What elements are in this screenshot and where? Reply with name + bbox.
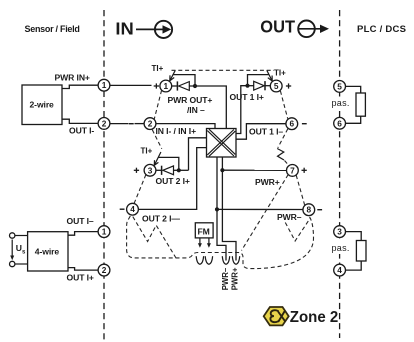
OUT arrow symbol (298, 21, 329, 38)
svg-text:6: 6 (289, 119, 294, 129)
dashed zigzag terminal4 to FM plug (133, 217, 176, 258)
dashed diag terminal5-terminal6 (280, 91, 287, 119)
svg-text:PWR IN+: PWR IN+ (55, 72, 90, 82)
junction node at 177.5,170.3 (177, 168, 181, 172)
dashed diag terminal3-terminal4 (134, 175, 146, 204)
FM box (195, 223, 213, 238)
svg-text:3: 3 (148, 165, 153, 175)
svg-text:8: 8 (306, 205, 311, 215)
plug fork FM right (205, 256, 212, 264)
supply terminal circles (10, 233, 15, 238)
wire terminal2 to device terminal 2 (110, 123, 129, 125)
TI+ dashed test line top (172, 69, 275, 71)
device terminal 6 (286, 118, 298, 130)
svg-text:OUT I+: OUT I+ (67, 273, 94, 283)
junction node PWR+ branch (220, 168, 224, 172)
minus sign at terminal 8 (317, 209, 322, 210)
2-wire sensor box (22, 85, 62, 125)
device terminal 3 (144, 164, 156, 176)
pas. label lower (331, 242, 350, 254)
svg-text:TI+: TI+ (152, 64, 164, 73)
dashed boundary around power section (127, 215, 314, 268)
junction node PWR- branch (215, 207, 219, 211)
svg-text:5: 5 (337, 81, 342, 91)
svg-text:FM: FM (198, 227, 210, 237)
wire diode to isolator top (PWR OUT+) (189, 86, 226, 129)
svg-text:7: 7 (290, 165, 295, 175)
solid tap from node to TI+ arrow left (174, 75, 196, 86)
device terminal 7 (287, 165, 299, 177)
Us supply arrow (10, 240, 26, 261)
device terminal 4 (127, 203, 139, 215)
svg-text:6: 6 (337, 118, 342, 128)
wire 4-wire to terminal 2 (68, 268, 98, 271)
Ex hexagon logo (264, 307, 289, 325)
plus sign at terminal 7 (302, 168, 307, 173)
plug fork PWR- (222, 256, 229, 264)
pas. label upper (331, 97, 350, 109)
svg-text:TI+: TI+ (274, 68, 286, 77)
svg-text:PWR+: PWR+ (255, 177, 280, 187)
PLC terminal 5 (334, 81, 346, 93)
svg-text:IN I- / IN I+: IN I- / IN I+ (156, 126, 197, 136)
isolator bottom wire PWR- (217, 157, 226, 261)
tap to TI+ arrow 3 (158, 157, 179, 170)
device terminal 1 (160, 80, 172, 92)
terminal 1 sensor side (98, 79, 110, 91)
wire diode3 to junction (174, 169, 189, 171)
TI+ arrow at terminal 1 (170, 70, 176, 81)
wire supply top (15, 235, 28, 237)
plug fork PWR+ (232, 256, 239, 264)
plus sign at device terminal 1 (154, 83, 159, 88)
wire 2-wire to terminal 2 (62, 119, 98, 123)
dashed check below terminal8 (285, 218, 310, 241)
svg-text:OUT 2 I—: OUT 2 I— (142, 214, 180, 224)
svg-text:5: 5 (274, 81, 279, 91)
svg-text:pas.: pas. (332, 98, 350, 108)
dashed diag terminal6-zigzag (278, 129, 288, 148)
junction node at 247.5,85.7 (245, 84, 249, 88)
isolator bottom wire PWR+ (222, 157, 236, 261)
FM arrow right (207, 238, 211, 248)
svg-text:2: 2 (102, 265, 107, 275)
wire to terminal 8 (217, 208, 303, 210)
svg-text:3: 3 (337, 227, 342, 237)
wire OUT 2 I- to isolator bottom left (138, 148, 206, 210)
dashed diag terminal7-PWR plug (242, 175, 289, 251)
minus sign at terminal 6 (302, 123, 307, 124)
svg-text:Zone 2: Zone 2 (290, 309, 339, 327)
wire 2-wire to terminal 1 (62, 85, 98, 88)
svg-text:PWR–: PWR– (221, 267, 230, 290)
dashed diag terminal7-terminal8 (296, 175, 304, 205)
solid tap from node to TI+ arrow right (248, 75, 269, 86)
terminal 2 lower sensor side (98, 264, 110, 276)
svg-text:/IN –: /IN – (187, 105, 205, 115)
PLC terminal 3 (334, 226, 346, 238)
svg-text:1: 1 (102, 227, 107, 237)
TI+ arrow at terminal 5 (267, 70, 272, 81)
wire OUT 2 I+ to isolator left (189, 138, 207, 171)
svg-text:OUT: OUT (260, 17, 295, 37)
svg-text:pas.: pas. (332, 243, 350, 253)
svg-text:1: 1 (163, 81, 168, 91)
svg-text:OUT 2 I+: OUT 2 I+ (156, 176, 190, 186)
svg-text:Sensor / Field: Sensor / Field (25, 24, 80, 34)
svg-text:PWR+: PWR+ (230, 267, 239, 290)
device terminal 5 (270, 80, 282, 92)
device terminal 2 (144, 118, 156, 130)
svg-text:PWR OUT+: PWR OUT+ (168, 95, 213, 105)
left separator dashed line (103, 10, 105, 340)
svg-text:4: 4 (130, 204, 135, 214)
svg-text:PWR–: PWR– (277, 212, 302, 222)
plus sign at terminal 5 (286, 83, 291, 88)
right separator dashed line (339, 10, 341, 338)
svg-text:PLC / DCS: PLC / DCS (357, 24, 406, 35)
PLC terminal 6 (334, 117, 346, 129)
svg-text:U: U (16, 243, 22, 253)
wire isolator to diode 5 (OUT 1 I+) (236, 86, 248, 134)
diode at terminal 1 (172, 81, 190, 90)
isolator box (207, 129, 237, 158)
wire 4-wire to terminal 1 (68, 232, 98, 236)
svg-text:TI+: TI+ (141, 146, 153, 155)
svg-text:4-wire: 4-wire (35, 246, 60, 256)
diode at terminal 5 (248, 81, 271, 90)
plus sign at device terminal 3 (134, 168, 139, 173)
plug fork FM left (196, 256, 203, 264)
PLC terminal 4 (334, 264, 346, 276)
diode at terminal 3 (156, 166, 174, 175)
dashed diag terminal2-TI arrow 3 (152, 130, 162, 149)
wire terminal1 to device terminal 1 (110, 84, 152, 86)
minus sign at device terminal 2 (129, 123, 134, 124)
wire to terminal 7 (222, 169, 286, 171)
terminal 2 sensor side (98, 118, 110, 130)
PLC resistor lower (346, 232, 367, 271)
wire isolator to terminal 6 (OUT 1 I-) (236, 124, 286, 140)
device terminal 8 (303, 204, 315, 216)
IN arrow symbol (136, 21, 172, 38)
junction node at 195,86 (193, 84, 197, 88)
svg-text:2-wire: 2-wire (30, 100, 55, 110)
svg-text:OUT 1 I+: OUT 1 I+ (230, 92, 264, 102)
zigzag configurable link (277, 149, 284, 161)
minus sign at device terminal 4 (120, 209, 125, 210)
svg-text:OUT I-: OUT I- (69, 126, 94, 136)
svg-text:OUT I–: OUT I– (67, 216, 94, 226)
FM arrow left (198, 238, 202, 248)
4-wire sensor box (28, 232, 68, 271)
PLC resistor upper (346, 86, 366, 123)
TI+ arrow at terminal 3 (154, 152, 161, 165)
wire terminal 2 to isolator (156, 124, 215, 129)
svg-text:2: 2 (148, 119, 153, 129)
svg-text:4: 4 (337, 265, 342, 275)
svg-text:1: 1 (102, 80, 107, 90)
dashed diag terminal1-terminal2 (154, 90, 161, 119)
dashed zigzag-terminal7 (285, 161, 289, 166)
svg-text:OUT 1 I–: OUT 1 I– (249, 126, 283, 136)
wire supply bottom (15, 263, 28, 265)
svg-text:2: 2 (102, 118, 107, 128)
terminal 1 lower sensor side (98, 226, 110, 238)
svg-text:IN: IN (115, 19, 133, 39)
